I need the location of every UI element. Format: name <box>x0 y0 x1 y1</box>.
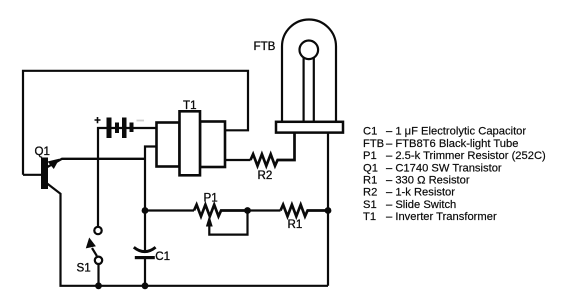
svg-text:C1: C1 <box>155 250 170 263</box>
svg-text:– Slide Switch: – Slide Switch <box>386 199 456 211</box>
svg-text:Q1: Q1 <box>363 162 378 174</box>
svg-text:P1: P1 <box>204 191 218 204</box>
svg-text:R1: R1 <box>288 218 303 231</box>
svg-text:FTB: FTB <box>254 40 276 53</box>
svg-text:– 1 μF Electrolytic Capacitor: – 1 μF Electrolytic Capacitor <box>386 126 526 138</box>
svg-text:– FTB8T6 Black-light Tube: – FTB8T6 Black-light Tube <box>386 138 518 150</box>
svg-text:C1: C1 <box>363 126 377 138</box>
svg-text:– 2.5-k Trimmer Resistor (252C: – 2.5-k Trimmer Resistor (252C) <box>386 150 546 162</box>
svg-text:T1: T1 <box>363 211 376 223</box>
svg-text:R1: R1 <box>363 175 377 187</box>
svg-text:S1: S1 <box>363 199 377 211</box>
svg-text:– 1-k Resistor: – 1-k Resistor <box>386 187 455 199</box>
svg-text:R2: R2 <box>363 187 377 199</box>
svg-text:P1: P1 <box>363 150 377 162</box>
svg-text:– Inverter Transformer: – Inverter Transformer <box>386 211 497 223</box>
svg-text:– C1740 SW Transistor: – C1740 SW Transistor <box>386 162 502 174</box>
svg-text:T1: T1 <box>183 99 197 112</box>
svg-text:Q1: Q1 <box>35 145 50 158</box>
svg-text:S1: S1 <box>77 261 91 274</box>
svg-text:– 330 Ω Resistor: – 330 Ω Resistor <box>386 175 470 187</box>
svg-text:R2: R2 <box>258 169 273 182</box>
svg-text:FTB: FTB <box>363 138 384 150</box>
